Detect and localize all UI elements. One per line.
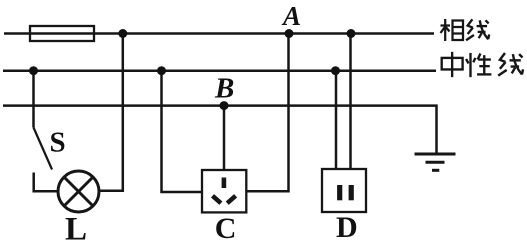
node junction dot on L1 at lamp branch [118,29,127,38]
node junction dot on L1 at socket D branch [347,29,356,38]
lamp L [58,171,99,212]
socket D box [322,169,366,212]
svg-text:S: S [50,126,66,158]
wire neutral to socket C left [162,71,203,192]
wire neutral to socket D [335,71,338,169]
wire socket C right to node A [246,34,288,192]
wire live to socket D [349,34,352,170]
wire live line L1 相线 [4,32,434,35]
wire neutral line L2 中性线 [3,69,436,72]
ground symbol [415,154,456,170]
fuse F1 [30,26,94,41]
socket C pins [213,178,236,204]
switch S blade [34,128,53,170]
node A junction dot [285,29,294,38]
wire switch bottom contact to lamp [34,173,59,192]
svg-text:C: C [215,212,237,242]
svg-text:D: D [336,211,358,242]
node junction dot on L2 at switch branch [29,66,38,75]
svg-text:L: L [65,212,87,242]
node junction dot on L2 at socket C branch [157,66,166,75]
node B junction dot [220,101,229,110]
node junction dot on L2 at socket D branch [331,66,340,75]
svg-text:A: A [281,1,301,31]
wire lamp to live line [99,34,123,191]
svg-text:B: B [214,73,234,105]
wire from neutral to switch [32,71,35,128]
socket D pins [340,185,352,200]
label 相线 (live wire) hand-drawn [441,19,490,41]
socket C box [202,170,246,212]
label 中性线 (neutral wire) hand-drawn [442,52,523,77]
wire earth line L3 [3,106,437,153]
wire node B to socket C earth pin [223,106,226,170]
